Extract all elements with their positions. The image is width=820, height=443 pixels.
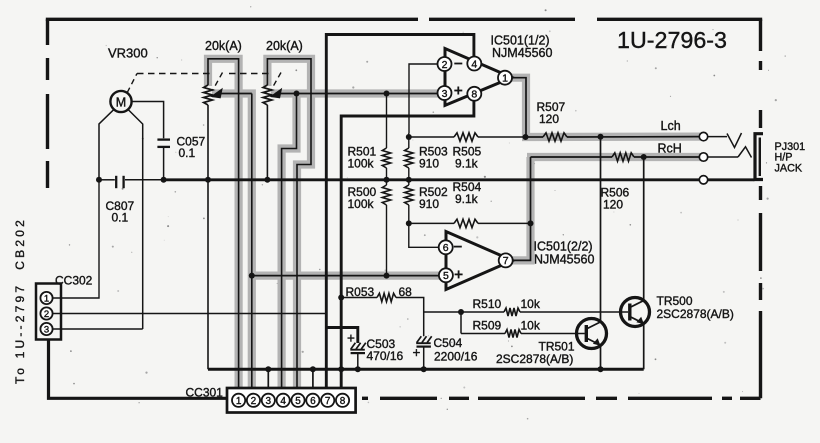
svg-text:5: 5 <box>443 270 449 282</box>
junction U1 output node <box>523 134 529 140</box>
potentiometer L 20k(A) element <box>204 85 213 105</box>
svg-text:1: 1 <box>502 72 508 84</box>
svg-text:2SC2878(A/B): 2SC2878(A/B) <box>496 352 573 366</box>
wire pot R top feed (jog, to CC301 pin5) <box>267 59 311 393</box>
capacitor C503 470/16 <box>347 331 366 370</box>
svg-text:2200/16: 2200/16 <box>434 350 478 364</box>
wire R510 row <box>461 311 504 313</box>
wire R509 row <box>461 333 505 335</box>
junction C503 / ground bus <box>355 366 361 372</box>
svg-text:1: 1 <box>236 396 242 407</box>
R509 label <box>473 319 541 333</box>
op-amp U1 minus sign <box>454 63 462 65</box>
wire R053 to C504 <box>396 298 424 337</box>
wire U2 pin6 feedback <box>409 223 439 247</box>
TR500 label <box>657 294 734 321</box>
Lch terminal <box>699 132 707 140</box>
dashed mechanical link (motor to pot wipers) <box>127 73 281 93</box>
op-amp U1 pin 4 <box>467 57 481 71</box>
svg-text:Lch: Lch <box>661 119 681 133</box>
junction node B (U2 fb) <box>406 220 412 226</box>
jack sleeve terminal <box>699 176 707 184</box>
wire mute drive from C504 node <box>424 311 461 313</box>
wire wiper L down (to CC301 pin2) <box>251 94 253 394</box>
NJM45560 label (U2) <box>534 253 594 267</box>
board label 1U-2796-3 <box>617 27 727 53</box>
svg-text:NJM45560: NJM45560 <box>534 253 594 267</box>
svg-text:910: 910 <box>419 197 439 211</box>
wire pot L bottom to buses <box>207 105 209 369</box>
junction wiper R branch <box>294 91 300 97</box>
resistor R506 120 <box>612 153 634 161</box>
wire Lch line R <box>567 136 700 138</box>
svg-text:6: 6 <box>443 242 449 254</box>
svg-text:10k: 10k <box>521 297 541 311</box>
IC501(1/2) label <box>491 34 550 48</box>
svg-text:6: 6 <box>310 396 316 407</box>
wire TR500 collector to RcH <box>643 157 645 301</box>
svg-text:7: 7 <box>325 396 331 407</box>
jack RcH switch contact <box>708 147 752 158</box>
junction R501-R500 / main bus <box>384 177 390 183</box>
wire ground stub to CC301 pin6 <box>312 369 314 393</box>
wire motor right leg to CC302 pin3 <box>128 110 143 329</box>
svg-text:4: 4 <box>280 396 286 407</box>
resistor R507 120 <box>543 133 567 141</box>
svg-text:To 1U--2797 CB202: To 1U--2797 CB202 <box>13 217 27 384</box>
R500 label <box>348 185 377 211</box>
RcH terminal <box>699 153 707 161</box>
connector CC302 label <box>55 274 93 288</box>
svg-text:M: M <box>116 95 126 109</box>
Lch label <box>661 119 681 133</box>
wire main bus to jack sleeve <box>708 178 755 181</box>
svg-text:8: 8 <box>471 89 477 101</box>
wire TR501 emitter to ground bus <box>600 346 602 370</box>
op-amp U1 pin 1 (output) <box>498 71 512 85</box>
svg-text:1U-2796-3: 1U-2796-3 <box>617 27 727 53</box>
svg-text:CC301: CC301 <box>186 386 224 400</box>
wire wiper R branch (jog, to CC301 pin4) <box>282 94 297 394</box>
transistor TR500 2SC2878(A/B) <box>621 298 650 327</box>
wire R504 to output node <box>478 222 531 224</box>
resistor R501 100k <box>382 148 390 168</box>
junction R503-R502 / main bus <box>406 177 412 183</box>
R510 label <box>473 297 541 311</box>
svg-text:10k: 10k <box>521 319 541 333</box>
svg-text:2: 2 <box>251 396 257 407</box>
motor VR300 label <box>108 46 148 61</box>
TR501 label <box>496 340 575 367</box>
junction R504 / U2 output <box>528 220 534 226</box>
op-amp U1 pin 2 <box>438 57 452 71</box>
op-amp U2 input link <box>445 250 447 274</box>
wire fb row R <box>409 222 454 224</box>
svg-text:2: 2 <box>442 59 448 71</box>
wire V+ rail (top, to CC301 pin7) <box>326 35 474 394</box>
svg-text:R509: R509 <box>473 319 502 333</box>
jack Lch switch contact <box>708 133 742 148</box>
resistor R502 910 <box>405 185 413 205</box>
pot L wiper arrow <box>210 88 252 99</box>
resistor R500 100k <box>382 185 390 205</box>
svg-text:TR500: TR500 <box>657 294 693 308</box>
wire V- rail (to CC301 pin8) <box>341 101 474 393</box>
junction C504 / ground bus <box>421 366 427 372</box>
resistor R504 9.1k <box>454 219 478 227</box>
wire R509 branch <box>460 312 462 334</box>
wire main signal bus <box>164 178 700 181</box>
svg-text:C504: C504 <box>434 336 463 350</box>
wire R501-R500 mid <box>386 168 388 185</box>
RcH label <box>658 142 682 156</box>
NJM45560 label (U1) <box>492 46 552 60</box>
op-amp U2 pin 6 <box>439 240 453 254</box>
svg-text:7: 7 <box>503 255 509 267</box>
label To 1U-2797 CB202 <box>13 217 27 384</box>
R501 label <box>348 145 377 171</box>
wire R505 to output node <box>478 136 526 138</box>
svg-text:R053: R053 <box>346 285 375 299</box>
op-amp U1 pin 3 <box>438 86 452 100</box>
junction C057 / main bus <box>161 177 167 183</box>
wire U2 pin7 output <box>513 157 531 260</box>
op-amp U1 IC501(1/2) triangle <box>445 49 512 106</box>
op-amp U2 IC501(2/2) triangle <box>446 232 513 290</box>
svg-text:0.1: 0.1 <box>112 211 129 225</box>
svg-text:9.1k: 9.1k <box>455 157 479 171</box>
svg-text:2: 2 <box>44 309 49 320</box>
wire RcH line R <box>634 156 700 158</box>
svg-text:RcH: RcH <box>658 142 682 156</box>
svg-text:R510: R510 <box>473 297 502 311</box>
svg-text:3: 3 <box>266 396 272 407</box>
svg-text:8: 8 <box>340 396 346 407</box>
wire lower ground bus <box>208 368 644 371</box>
capacitor C504 2200/16 <box>413 336 432 369</box>
C057 value label <box>177 135 206 161</box>
wire R501 top to wiper line <box>386 94 388 149</box>
junction pin6 stub / ground bus <box>310 366 316 372</box>
resistor R505 9.1k <box>454 133 478 141</box>
wire CC302 pin2 to supply rail <box>53 313 327 315</box>
svg-text:20k(A): 20k(A) <box>266 39 303 53</box>
svg-text:IC501(2/2): IC501(2/2) <box>534 240 593 254</box>
pot L 20k(A) value label <box>205 39 242 53</box>
C503 value label <box>367 337 404 363</box>
svg-text:0.1: 0.1 <box>179 146 196 160</box>
junction pin3 stub / ground bus <box>265 366 271 372</box>
svg-text:470/16: 470/16 <box>367 349 404 363</box>
wire TR501 collector to Lch <box>600 137 602 322</box>
svg-text:9.1k: 9.1k <box>455 192 479 206</box>
svg-text:3: 3 <box>44 324 49 335</box>
svg-text:1: 1 <box>44 293 49 304</box>
junction rail / R053 <box>338 295 344 301</box>
wire CC302 to CC301 (bottom left) <box>49 340 228 399</box>
R505 label <box>453 145 482 171</box>
wire CC302 pin3 to motor <box>53 328 143 330</box>
op-amp U2 pin 5 <box>439 268 453 282</box>
op-amp U2 minus sign <box>454 246 462 248</box>
capacitor C807 <box>99 176 164 188</box>
wire U1 pin2 feedback <box>409 64 438 133</box>
wire motor left leg <box>99 110 114 180</box>
PJ301 H/P JACK label <box>775 141 806 174</box>
resistor R053 68 <box>377 293 396 301</box>
highlighted signal path (gray) <box>208 59 700 393</box>
svg-text:+: + <box>347 331 355 346</box>
junction TR501 emitter / ground bus <box>598 366 604 372</box>
IC501(2/2) label <box>534 240 593 254</box>
R504 label <box>453 180 482 206</box>
svg-text:120: 120 <box>603 198 623 212</box>
headphone jack PJ301 body <box>755 134 763 180</box>
op-amp U1 input link <box>444 66 446 90</box>
svg-text:+: + <box>413 345 421 360</box>
junction bias / wiper L column <box>249 273 255 279</box>
connector CC301 label <box>186 386 224 400</box>
wire motor right terminal to C057 <box>132 102 164 139</box>
svg-text:100k: 100k <box>348 157 375 171</box>
wire bias line to U2 pin5 <box>252 275 439 277</box>
R503 label <box>419 145 448 171</box>
C504 value label <box>434 336 478 364</box>
wire pot L top feed (to CC301 pin1) <box>208 59 239 393</box>
svg-text:VR300: VR300 <box>108 46 148 61</box>
wire R502 bottom <box>408 205 410 223</box>
wire fb row L <box>409 136 454 138</box>
resistor R509 10k <box>505 330 521 338</box>
R507 label <box>537 100 566 126</box>
svg-text:4: 4 <box>471 58 477 70</box>
svg-text:100k: 100k <box>348 197 375 211</box>
wire pot R bottom to main bus <box>266 105 268 180</box>
svg-text:20k(A): 20k(A) <box>205 39 242 53</box>
op-amp U2 pin 7 (output) <box>499 253 513 267</box>
pot R 20k(A) value label <box>266 39 303 53</box>
svg-text:910: 910 <box>419 157 439 171</box>
svg-text:5: 5 <box>295 396 301 407</box>
motor M (VR300) <box>110 91 131 112</box>
wire Lch line L <box>526 136 544 138</box>
wire R510 to TR500 base <box>520 311 628 313</box>
wire CC302 pin1 to C807 node <box>53 180 99 298</box>
op-amp U1 pin 8 <box>467 87 481 101</box>
junction node A (U1 fb) <box>406 134 412 140</box>
wire U1 pin1 output <box>512 78 526 137</box>
wire TR500 emitter to ground bus <box>643 324 645 370</box>
junction R501 / wiper line <box>384 91 390 97</box>
junction Lch / TR501 collector <box>598 134 604 140</box>
svg-text:NJM45560: NJM45560 <box>492 46 552 60</box>
junction R500 / bias line <box>384 273 390 279</box>
op-amp U1 plus sign <box>454 87 462 95</box>
R502 label <box>419 185 448 211</box>
wire RcH line L <box>531 156 613 158</box>
R506 label <box>601 186 630 212</box>
junction C807 left node <box>96 177 102 183</box>
pot R wiper arrow <box>270 88 438 99</box>
C807 value label <box>106 199 135 225</box>
wire ground stub to CC301 pin3 <box>267 369 269 393</box>
svg-text:120: 120 <box>539 112 559 126</box>
connector CC302 <box>36 284 61 340</box>
wire R053 row <box>341 297 377 299</box>
resistor R510 10k <box>504 308 520 316</box>
resistor R503 910 <box>405 148 413 168</box>
junction RcH / TR500 collector <box>641 154 647 160</box>
connector CC301 (pins 1-8) <box>227 388 356 413</box>
junction pot L bottom / main bus <box>205 177 211 183</box>
svg-text:3: 3 <box>442 88 448 100</box>
svg-text:2SC2878(A/B): 2SC2878(A/B) <box>657 307 734 321</box>
wire R503 column <box>408 133 410 185</box>
capacitor C057 <box>157 140 170 180</box>
wire R500 bottom to bias line <box>386 205 388 276</box>
svg-text:JACK: JACK <box>775 162 803 174</box>
junction pot R bottom / main bus <box>264 177 270 183</box>
wire supply branch to C503 <box>326 328 358 344</box>
op-amp U2 plus sign <box>455 270 463 278</box>
wire R509 to TR501 base <box>521 333 585 335</box>
transistor TR501 2SC2878(A/B) <box>577 319 607 349</box>
junction R510/R509 branch <box>458 309 464 315</box>
potentiometer R 20k(A) element <box>263 85 272 105</box>
junction rail / ground bus <box>338 366 344 372</box>
R053 label <box>346 285 413 299</box>
